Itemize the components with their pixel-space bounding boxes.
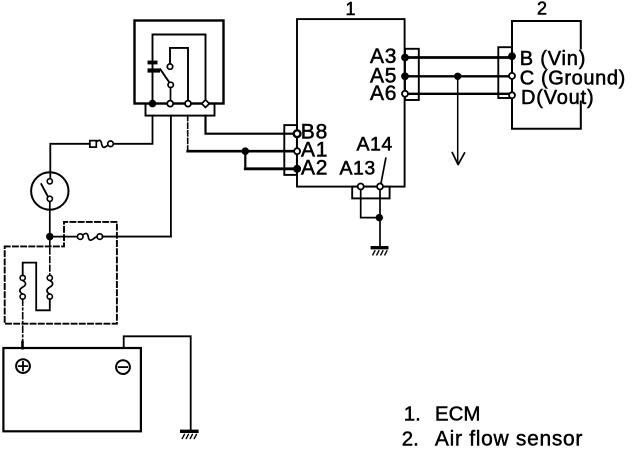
svg-text:2.: 2. xyxy=(402,428,419,450)
svg-text:1.: 1. xyxy=(404,402,421,425)
svg-text:B (Vin): B (Vin) xyxy=(520,48,586,70)
svg-text:ECM: ECM xyxy=(435,402,481,425)
svg-text:1: 1 xyxy=(345,0,355,19)
svg-text:2: 2 xyxy=(537,0,547,19)
svg-text:A13: A13 xyxy=(340,157,376,179)
svg-text:D(Vout): D(Vout) xyxy=(521,87,594,109)
svg-text:A2: A2 xyxy=(301,156,328,179)
svg-text:A6: A6 xyxy=(370,82,397,105)
svg-text:A14: A14 xyxy=(357,133,393,155)
svg-text:Air flow sensor: Air flow sensor xyxy=(435,428,583,450)
